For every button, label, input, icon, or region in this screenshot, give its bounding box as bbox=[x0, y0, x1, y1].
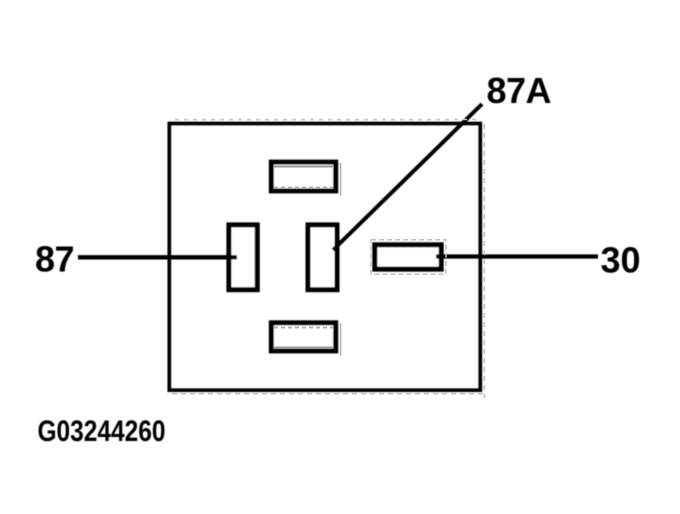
terminal slot pin 87A (middle) bbox=[308, 225, 337, 290]
scan artifact: echo around right slot bbox=[371, 240, 446, 274]
scan artifact: dashes above box top edge bbox=[175, 119, 478, 121]
svg-text:G03244260: G03244260 bbox=[38, 415, 166, 448]
scan artifact: gray band inside bottom slot lower bbox=[274, 347, 333, 349]
scan artifact: gray dashes inside top slot bottom bbox=[274, 187, 333, 189]
leader line to pin 87A bbox=[333, 104, 482, 250]
scan artifact: gray column right of bottom slot bbox=[340, 323, 342, 356]
wire leader to pin 87 bbox=[78, 255, 237, 259]
scan artifact: gray column right of top slot bbox=[340, 163, 342, 196]
scan artifact: gray band inside bottom slot bbox=[274, 327, 333, 329]
svg-text:87A: 87A bbox=[487, 70, 552, 111]
scan artifact: dashes below box bottom edge bbox=[172, 393, 484, 395]
svg-text:30: 30 bbox=[601, 240, 641, 281]
terminal slot pin 87 (left) bbox=[229, 225, 257, 290]
wire leader to pin 30 bbox=[436, 254, 598, 258]
svg-text:87: 87 bbox=[35, 239, 74, 280]
terminal slot pin 30 (right) bbox=[375, 245, 441, 269]
relay connector outline U1 bbox=[169, 124, 480, 391]
scan artifact: gray band inside top slot bbox=[274, 166, 333, 168]
terminal slot pin 85 (bottom) bbox=[271, 323, 335, 351]
scan artifact: dashes right of box right edge bbox=[483, 124, 485, 398]
terminal slot pin 86 (top) bbox=[271, 162, 335, 191]
